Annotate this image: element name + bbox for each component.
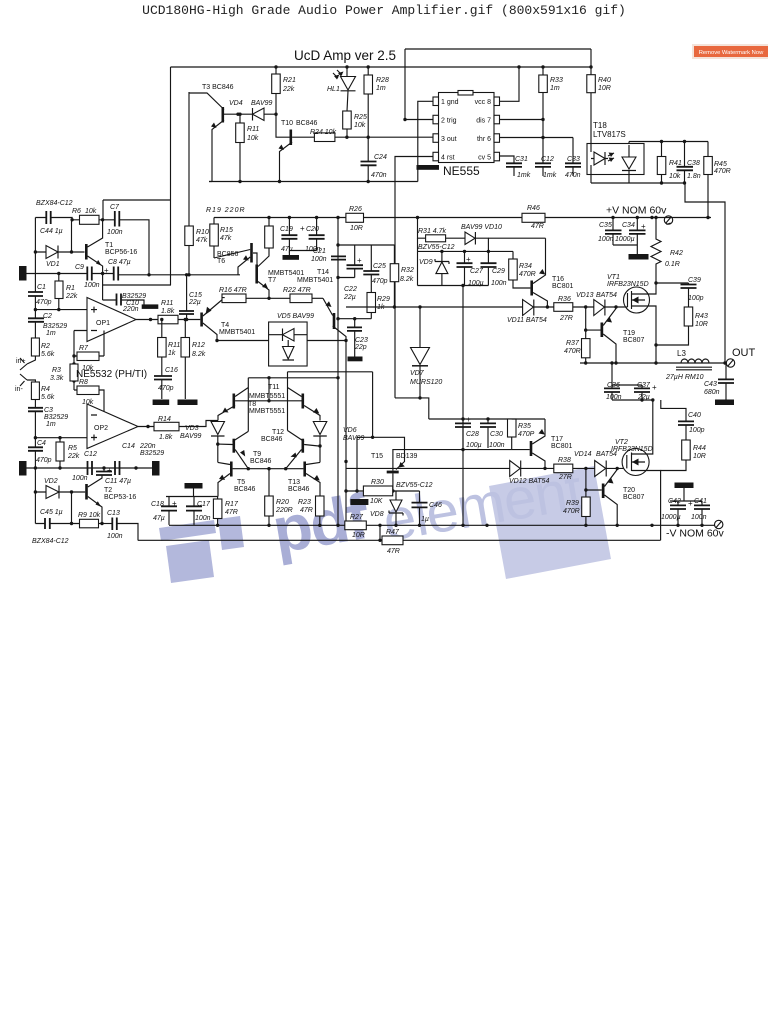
- svg-text:C8 47µ: C8 47µ: [108, 259, 131, 266]
- inductor L3: [681, 359, 709, 363]
- resistor R32: [390, 264, 399, 282]
- svg-text:22k: 22k: [67, 453, 80, 460]
- svg-text:470p: 470p: [158, 385, 174, 392]
- capacitor C34: [629, 230, 646, 234]
- ground bar C23: [348, 357, 363, 362]
- svg-text:C46: C46: [429, 502, 442, 509]
- resistor R40: [587, 75, 596, 93]
- ground bar NE555: [417, 165, 440, 170]
- LED HL1: [341, 77, 356, 91]
- capacitor C13: [112, 518, 117, 531]
- transistor T9: [233, 439, 236, 453]
- svg-text:R2: R2: [41, 343, 50, 350]
- svg-text:R45: R45: [714, 161, 727, 168]
- svg-text:BZX84-C12: BZX84-C12: [36, 200, 73, 207]
- wire right edge net: [685, 183, 725, 363]
- wire rst chain low: [395, 398, 429, 419]
- svg-text:R11: R11: [247, 126, 259, 133]
- svg-text:T8: T8: [248, 401, 256, 408]
- svg-text:10R: 10R: [693, 453, 706, 460]
- resistor R5: [56, 442, 64, 461]
- svg-text:OUT: OUT: [732, 347, 756, 359]
- svg-text:+V NOM 60v: +V NOM 60v: [606, 205, 667, 217]
- svg-text:470p: 470p: [36, 457, 52, 464]
- svg-text:C12: C12: [541, 156, 554, 163]
- svg-text:1000µ: 1000µ: [615, 236, 635, 243]
- svg-text:C44 1µ: C44 1µ: [40, 228, 63, 235]
- svg-text:C12: C12: [84, 451, 97, 458]
- svg-text:R20: R20: [276, 499, 289, 506]
- svg-text:NE5532 (PH/TI): NE5532 (PH/TI): [76, 369, 147, 380]
- svg-text:10R: 10R: [598, 85, 611, 92]
- capacitor C40: [678, 421, 694, 425]
- svg-text:R6: R6: [72, 208, 81, 215]
- svg-text:470p: 470p: [36, 299, 52, 306]
- svg-text:C7: C7: [110, 204, 120, 211]
- resistor R24: [314, 133, 335, 142]
- svg-text:R1: R1: [66, 285, 75, 292]
- svg-text:LTV817S: LTV817S: [593, 130, 626, 139]
- capacitor C42: [670, 505, 686, 509]
- resistor R9: [80, 519, 99, 528]
- svg-text:10k: 10k: [354, 122, 366, 129]
- svg-text:+: +: [107, 466, 112, 475]
- IC NE555 box: [439, 93, 495, 163]
- svg-text:R11: R11: [168, 342, 180, 349]
- ground bar VT2: [675, 483, 694, 489]
- capacitor C18: [161, 506, 177, 510]
- svg-text:C21: C21: [313, 248, 326, 255]
- capacitor C25: [363, 271, 379, 275]
- svg-text:R24 10k: R24 10k: [310, 129, 337, 136]
- svg-text:cv 5: cv 5: [478, 155, 491, 162]
- transistor T15: [387, 471, 399, 474]
- svg-text:in-: in-: [15, 386, 23, 393]
- svg-text:+: +: [466, 415, 471, 424]
- svg-text:R3: R3: [52, 367, 61, 374]
- svg-text:C28: C28: [466, 431, 479, 438]
- svg-text:R30: R30: [371, 479, 384, 486]
- svg-text:1m: 1m: [46, 421, 56, 428]
- svg-text:8.2k: 8.2k: [192, 351, 206, 358]
- svg-text:10R: 10R: [352, 532, 365, 539]
- rail2: [138, 539, 661, 541]
- wire trig pin2: [405, 119, 433, 121]
- svg-text:VD6: VD6: [343, 427, 357, 434]
- svg-text:T9: T9: [253, 451, 261, 458]
- capacitor C39: [681, 285, 697, 289]
- svg-text:470P: 470P: [518, 431, 535, 438]
- diode VD12: [510, 461, 521, 477]
- svg-text:BC846: BC846: [234, 486, 256, 493]
- svg-text:R43: R43: [695, 313, 708, 320]
- wire C40 branch: [661, 400, 686, 421]
- svg-text:R23: R23: [298, 499, 311, 506]
- svg-text:vcc 8: vcc 8: [475, 99, 491, 106]
- capacitor C1: [28, 292, 43, 296]
- resistor R4: [31, 382, 39, 400]
- svg-text:BC846: BC846: [288, 486, 310, 493]
- capacitor C37: [634, 388, 650, 392]
- resistor R45: [704, 157, 713, 175]
- WATERMARK: [159, 457, 611, 583]
- svg-text:BC856: BC856: [217, 251, 239, 258]
- screw terminal +V: [664, 216, 672, 224]
- resistor R30: [363, 486, 392, 496]
- svg-text:220n: 220n: [122, 306, 139, 313]
- svg-text:BAV99: BAV99: [251, 100, 273, 107]
- transistor T4: [200, 313, 203, 327]
- resistor R11 output OP1: [158, 315, 178, 324]
- op-amp OP1: [87, 298, 136, 342]
- svg-text:10R: 10R: [350, 225, 363, 232]
- svg-text:C38: C38: [687, 160, 700, 167]
- capacitor C45: [45, 518, 50, 529]
- svg-text:C29: C29: [492, 268, 505, 275]
- svg-text:R42: R42: [670, 250, 683, 257]
- long vertical x338: [337, 218, 339, 526]
- svg-text:1 gnd: 1 gnd: [441, 99, 459, 106]
- wire bank top: [429, 418, 512, 420]
- svg-text:470R: 470R: [714, 168, 731, 175]
- svg-text:27µH RM10: 27µH RM10: [665, 374, 704, 381]
- svg-text:R5: R5: [68, 445, 77, 452]
- vertical x463: [462, 286, 464, 526]
- svg-text:+: +: [300, 224, 305, 233]
- wire C36 bottom: [612, 399, 653, 401]
- ground bar C34: [629, 254, 649, 260]
- screw terminal -V: [715, 520, 723, 528]
- wire top rail y67: [171, 66, 592, 68]
- svg-text:100µ: 100µ: [466, 442, 482, 449]
- svg-text:BC846: BC846: [296, 120, 318, 127]
- svg-text:IRFB23N15D: IRFB23N15D: [611, 446, 653, 453]
- capacitor C35: [605, 230, 622, 234]
- svg-text:C9: C9: [75, 264, 84, 271]
- svg-text:1.8k: 1.8k: [159, 434, 173, 441]
- svg-text:T15: T15: [371, 453, 383, 460]
- svg-text:T12: T12: [272, 429, 284, 436]
- pocket R31: [426, 235, 446, 242]
- capacitor C20: [309, 235, 325, 239]
- svg-text:5.6k: 5.6k: [41, 351, 55, 358]
- svg-text:OP1: OP1: [96, 320, 110, 327]
- svg-text:100n: 100n: [491, 280, 507, 287]
- svg-text:R10: R10: [196, 229, 209, 236]
- SEC_RIGHT: [346, 205, 756, 526]
- wire base tie top: [235, 378, 301, 401]
- svg-text:VD11 BAT54: VD11 BAT54: [507, 317, 547, 324]
- svg-text:VD7: VD7: [410, 370, 425, 377]
- svg-text:1mk: 1mk: [517, 172, 531, 179]
- svg-text:10K: 10K: [370, 498, 383, 505]
- screw terminal OUT: [726, 359, 734, 367]
- gate wire lower: [346, 467, 627, 469]
- svg-text:BCP53-16: BCP53-16: [104, 494, 136, 501]
- resistor R26: [346, 213, 364, 222]
- resistor R2: [31, 338, 39, 356]
- wire left low vertical: [35, 468, 71, 524]
- svg-text:C16: C16: [165, 367, 178, 374]
- svg-text:R26: R26: [349, 206, 362, 213]
- resistor R28: [364, 75, 373, 94]
- svg-text:C39: C39: [688, 277, 701, 284]
- svg-text:1.8n: 1.8n: [687, 173, 701, 180]
- svg-text:VD13: VD13: [576, 292, 594, 299]
- resistor R19: [265, 226, 274, 248]
- svg-text:C25: C25: [373, 263, 386, 270]
- svg-text:100n: 100n: [107, 229, 123, 236]
- svg-text:1m: 1m: [46, 330, 56, 337]
- svg-text:R7: R7: [79, 345, 89, 352]
- svg-text:T19: T19: [623, 330, 635, 337]
- svg-text:C40: C40: [688, 412, 701, 419]
- transistor T7: [255, 265, 258, 284]
- svg-text:22k: 22k: [65, 293, 78, 300]
- svg-text:B32529: B32529: [122, 293, 146, 300]
- svg-text:R9 10k: R9 10k: [78, 512, 101, 519]
- wire cv pin5: [500, 156, 515, 163]
- svg-text:R8: R8: [79, 379, 88, 386]
- svg-text:T7: T7: [268, 277, 276, 284]
- svg-text:C45 1µ: C45 1µ: [40, 509, 63, 516]
- svg-text:+: +: [652, 383, 657, 392]
- svg-text:C33: C33: [567, 156, 580, 163]
- svg-text:VD4: VD4: [229, 100, 243, 107]
- svg-text:C24: C24: [374, 154, 387, 161]
- transistor T3: [222, 107, 225, 123]
- capacitor C32: [535, 163, 551, 167]
- svg-text:BCP56-16: BCP56-16: [105, 249, 137, 256]
- svg-text:R37: R37: [566, 340, 580, 347]
- resistor R20: [265, 496, 274, 516]
- svg-text:R44: R44: [693, 445, 706, 452]
- resistor R25: [343, 111, 352, 129]
- wire dis pin7: [500, 119, 544, 121]
- svg-text:R33: R33: [550, 77, 563, 84]
- svg-text:thr 6: thr 6: [477, 136, 491, 143]
- svg-text:VD14: VD14: [574, 451, 592, 458]
- svg-text:-V NOM 60v: -V NOM 60v: [666, 528, 725, 540]
- resistor R27: [345, 521, 367, 530]
- svg-text:T11: T11: [268, 384, 280, 391]
- svg-text:BAT54: BAT54: [596, 292, 617, 299]
- svg-text:VD3: VD3: [185, 425, 199, 432]
- resistor R44: [682, 440, 691, 460]
- svg-text:100n: 100n: [195, 515, 211, 522]
- resistor R7: [77, 352, 99, 361]
- wire T3 emitter corner: [209, 181, 212, 183]
- svg-text:47k: 47k: [196, 237, 208, 244]
- ground terminal bar in1: [19, 266, 27, 281]
- wire top-left net: [26, 67, 189, 285]
- svg-text:1k: 1k: [168, 350, 176, 357]
- svg-text:R21: R21: [283, 77, 296, 84]
- SEC_TOPLEFT: [15, 67, 240, 482]
- svg-text:R29: R29: [377, 296, 390, 303]
- capacitor C27: [457, 263, 473, 267]
- svg-text:Remove Watermark Now: Remove Watermark Now: [699, 50, 764, 56]
- svg-text:R25: R25: [354, 114, 367, 121]
- capacitor C17: [186, 506, 202, 510]
- svg-text:IRFB23N15D: IRFB23N15D: [607, 281, 649, 288]
- svg-text:100n: 100n: [489, 442, 505, 449]
- transistor T1: [85, 244, 88, 260]
- svg-text:UcD Amp ver 2.5: UcD Amp ver 2.5: [294, 48, 396, 63]
- node wire y363: [580, 362, 727, 364]
- watermark folder bar: [159, 520, 216, 541]
- svg-text:BC801: BC801: [552, 283, 574, 290]
- capacitor C11: [96, 472, 112, 476]
- resistor R41: [657, 157, 666, 175]
- transistor T10: [290, 130, 293, 146]
- svg-text:R15: R15: [220, 227, 233, 234]
- wire op2 plus net: [35, 437, 87, 439]
- wire op1 plus net: [35, 309, 87, 311]
- svg-text:+: +: [641, 222, 646, 231]
- svg-text:R14: R14: [158, 416, 171, 423]
- transistor T19: [601, 323, 604, 338]
- wire cluster top A: [288, 371, 373, 373]
- svg-text:OP2: OP2: [94, 425, 108, 432]
- resistor R36: [554, 303, 573, 312]
- svg-text:T16: T16: [552, 276, 564, 283]
- transistor T6: [250, 243, 253, 263]
- svg-text:R35: R35: [518, 423, 531, 430]
- svg-text:680n: 680n: [704, 389, 720, 396]
- svg-text:+: +: [172, 499, 177, 508]
- resistor R21: [272, 74, 281, 94]
- long vertical x346: [345, 341, 347, 526]
- svg-text:C37: C37: [637, 382, 651, 389]
- svg-text:C14: C14: [122, 443, 135, 450]
- svg-text:47R: 47R: [300, 507, 313, 514]
- svg-text:2 trig: 2 trig: [441, 118, 457, 125]
- remove watermark button: [692, 44, 768, 59]
- svg-text:B32529: B32529: [140, 450, 164, 457]
- svg-text:10R: 10R: [695, 321, 708, 328]
- wire emitter bus: [103, 274, 171, 301]
- resistor R39: [582, 497, 591, 517]
- svg-text:470R: 470R: [563, 508, 580, 515]
- svg-text:C23: C23: [355, 337, 368, 344]
- capacitor C30: [480, 423, 496, 427]
- diode VD10: [465, 232, 475, 245]
- svg-text:10k: 10k: [669, 173, 681, 180]
- gate wire upper: [346, 306, 624, 308]
- svg-text:22µ: 22µ: [343, 294, 356, 301]
- resistor R12: [181, 338, 190, 358]
- svg-text:C1: C1: [37, 284, 46, 291]
- svg-text:R46: R46: [527, 205, 540, 212]
- svg-text:R31 4.7k: R31 4.7k: [418, 228, 447, 235]
- svg-text:B32529: B32529: [44, 414, 68, 421]
- svg-text:22µ: 22µ: [188, 299, 201, 306]
- HEADER: [142, 3, 768, 63]
- svg-text:470R: 470R: [564, 348, 581, 355]
- svg-text:BC807: BC807: [623, 337, 645, 344]
- wire opto pins: [591, 142, 629, 184]
- wire cluster top B: [248, 377, 338, 379]
- capacitor C33: [565, 163, 581, 167]
- svg-text:C18: C18: [151, 501, 164, 508]
- svg-text:100n: 100n: [84, 282, 100, 289]
- opto LED: [594, 152, 605, 165]
- svg-text:BC807: BC807: [623, 494, 645, 501]
- SEC_MIDDLE: [138, 205, 715, 555]
- svg-text:R27: R27: [350, 514, 364, 521]
- diode VD1: [46, 246, 58, 259]
- svg-text:4 rst: 4 rst: [441, 155, 455, 162]
- capacitor C16: [154, 376, 172, 380]
- capacitor C19: [281, 235, 297, 239]
- wire cap box top: [166, 489, 218, 497]
- resistor R34: [509, 259, 518, 280]
- transistor T13: [303, 462, 306, 477]
- svg-text:VD2: VD2: [44, 478, 58, 485]
- svg-text:R47: R47: [386, 529, 400, 536]
- svg-text:NE555: NE555: [443, 164, 480, 178]
- wire rst pin4: [395, 157, 433, 398]
- svg-text:dis 7: dis 7: [476, 118, 491, 125]
- resistor R35: [508, 419, 517, 437]
- transistor T2: [85, 484, 88, 500]
- svg-text:T10: T10: [281, 120, 293, 127]
- transistor T5: [230, 462, 233, 477]
- resistor R10: [185, 226, 194, 246]
- wire thr pin6: [500, 137, 574, 139]
- wire zener bottom: [418, 251, 489, 285]
- svg-text:BAV99: BAV99: [180, 433, 202, 440]
- svg-text:C11 47µ: C11 47µ: [105, 478, 131, 485]
- resistor R8: [77, 386, 99, 395]
- zener VD9: [435, 259, 449, 264]
- diode VD14: [595, 461, 606, 477]
- svg-text:T18: T18: [593, 121, 607, 130]
- svg-text:VD1: VD1: [46, 261, 60, 268]
- svg-text:C22: C22: [344, 286, 357, 293]
- svg-text:C2: C2: [43, 313, 52, 320]
- transistor T11: [302, 394, 305, 409]
- svg-text:470n: 470n: [565, 172, 581, 179]
- svg-text:C19: C19: [280, 226, 293, 233]
- svg-text:R12: R12: [192, 342, 205, 349]
- svg-text:VD5 BAV99: VD5 BAV99: [277, 313, 314, 320]
- capacitor C22: [347, 265, 364, 268]
- capacitor C38: [677, 167, 694, 171]
- svg-text:T4: T4: [221, 322, 229, 329]
- svg-text:22k: 22k: [282, 86, 295, 93]
- svg-text:C15: C15: [189, 292, 202, 299]
- ground bar R12: [178, 400, 198, 406]
- ground terminal bar mid-right: [152, 461, 160, 476]
- svg-text:C30: C30: [490, 431, 503, 438]
- capacitor C10: [117, 294, 122, 306]
- svg-text:R34: R34: [519, 263, 532, 270]
- SEC_LOWRIGHT: [346, 398, 725, 540]
- wire VD5 right: [307, 340, 346, 342]
- svg-text:C20: C20: [306, 226, 319, 233]
- svg-text:C34: C34: [622, 222, 635, 229]
- capacitor C7: [115, 211, 120, 227]
- svg-text:1m: 1m: [376, 85, 386, 92]
- resistor R29: [367, 293, 376, 313]
- svg-text:MMBT5551: MMBT5551: [249, 393, 285, 400]
- svg-text:47R: 47R: [387, 548, 400, 555]
- svg-text:HL1: HL1: [327, 86, 340, 93]
- svg-text:BZV55-C12: BZV55-C12: [418, 244, 455, 251]
- diode VD6: [313, 422, 327, 435]
